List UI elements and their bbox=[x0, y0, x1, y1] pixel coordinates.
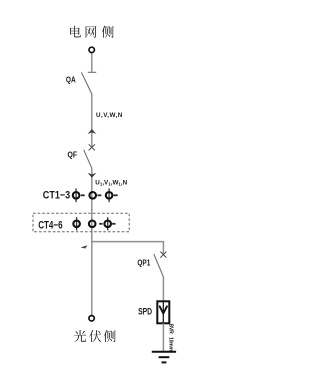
svg-text:U1,V1,W1,N: U1,V1,W1,N bbox=[95, 180, 127, 187]
CT1-3 link dashes bbox=[81, 194, 118, 196]
breaker QP1 blade bbox=[154, 254, 164, 277]
svg-text:CT1−3: CT1−3 bbox=[43, 189, 70, 201]
CT1-3 transformer circles bbox=[73, 188, 113, 202]
SPD surge protector box bbox=[157, 301, 169, 323]
SPD internal conductor bbox=[162, 301, 164, 323]
svg-text:QF: QF bbox=[68, 151, 78, 160]
terminal grid-side bbox=[89, 47, 94, 52]
svg-text:QA: QA bbox=[66, 76, 76, 85]
breaker QF blade bbox=[84, 150, 92, 168]
svg-text:SPD: SPD bbox=[138, 307, 152, 318]
wire QP1 to SPD bbox=[162, 277, 164, 302]
wire branch to QP1 bbox=[92, 242, 164, 254]
breaker QP1 contact X bbox=[160, 252, 166, 258]
label PV side 光伏侧 bbox=[74, 330, 116, 342]
svg-text:QP1: QP1 bbox=[137, 257, 150, 267]
svg-text:BVR 10mm²: BVR 10mm² bbox=[168, 324, 174, 353]
label grid side 电网侧 bbox=[70, 26, 114, 38]
SPD arrow bbox=[160, 306, 167, 313]
svg-text:CT4−6: CT4−6 bbox=[38, 219, 62, 231]
ground symbol bbox=[152, 352, 176, 363]
arrow up on wire bbox=[88, 129, 97, 134]
wire from grid terminal bbox=[91, 54, 93, 72]
switch QA blade bbox=[81, 72, 91, 93]
small left arrow marker bbox=[81, 245, 88, 248]
switch QA fixed contact bbox=[88, 71, 96, 73]
CT4-6 dashed enclosure bbox=[33, 213, 129, 232]
wire QF to PV terminal (main bus) bbox=[91, 168, 93, 315]
arrow down on wire bbox=[88, 173, 97, 178]
terminal PV-side bbox=[89, 316, 94, 321]
CT4-6 transformer circles bbox=[73, 217, 111, 230]
wire SPD to ground bbox=[162, 323, 164, 351]
svg-text:U,V,W,N: U,V,W,N bbox=[96, 112, 123, 119]
breaker QF contact X bbox=[89, 144, 95, 150]
CT4-6 link dashes bbox=[99, 223, 115, 225]
wire QA to QF bbox=[91, 93, 93, 147]
